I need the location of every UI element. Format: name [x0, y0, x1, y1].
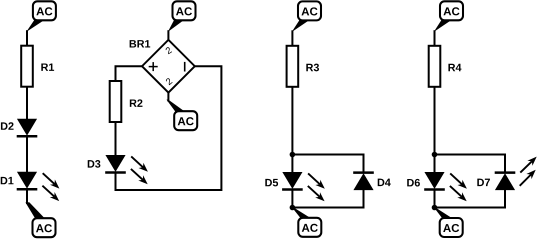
label D1 [1, 177, 8, 184]
resistor R1 [21, 46, 33, 87]
AC source terminal (circuit 3 top) [293, 1, 321, 31]
LED D3 [105, 156, 126, 173]
wire: D5 cathode to bottom junction [291, 190, 293, 208]
diode D2 [17, 119, 38, 136]
wire: top rail to D7 branch (circuit 4) [435, 155, 506, 173]
wire: AC top to BR1 pin 2 (circuit 2) [167, 30, 169, 41]
wire: D3 cathode to BR1 - input (bottom and right rail) [116, 66, 222, 190]
label D7 [477, 179, 484, 186]
BR1 pin marking + (DC positive, left) [149, 62, 158, 71]
AC source terminal (circuit 4 bottom) [433, 206, 462, 237]
wire: R2 to D3 anode [115, 122, 117, 157]
LED D6 emission arrows [450, 173, 467, 201]
wire: top junction to D5 anode [291, 155, 293, 174]
label R2 [130, 99, 137, 106]
BR1 pin marking - (DC negative, right) [184, 62, 186, 72]
LED D5 emission arrows [308, 173, 325, 201]
label BR1 [130, 40, 137, 47]
junction node (circuit 4 top) [432, 152, 438, 158]
resistor R2 [110, 81, 122, 122]
label D3 [88, 160, 95, 167]
label R3 [306, 64, 313, 71]
wire: AC top to R1 (circuit 1) [26, 30, 28, 46]
junction node (circuit 4 bottom) [432, 205, 438, 211]
label D4 [378, 179, 385, 186]
AC source terminal (circuit 1 top) [27, 1, 56, 31]
bridge rectifier BR1 body [142, 40, 195, 93]
wire: D4 anode to bottom rail (circuit 3) [292, 189, 363, 208]
BR1 pin marking ~ AC (bottom) [165, 77, 172, 85]
label R1 [41, 63, 48, 70]
junction node (circuit 3 top) [290, 152, 296, 158]
wire: R1 to D2 anode [26, 87, 28, 121]
LED D1 emission arrows [42, 173, 59, 201]
wire: D6 cathode to bottom junction [434, 190, 436, 208]
wire: BR1 + output to R2 [116, 66, 143, 82]
label D2 [1, 122, 8, 129]
BR1 pin marking ~ AC (top) [165, 46, 172, 54]
wire: top junction to D6 anode [434, 155, 436, 174]
wire: R3 to top junction [291, 87, 293, 155]
label D6 [407, 179, 414, 186]
LED D7 [495, 173, 516, 190]
AC source terminal (circuit 3 bottom) [291, 206, 321, 237]
wire: AC top to R3 (circuit 3) [291, 30, 293, 46]
resistor R3 [287, 46, 299, 87]
LED D7 emission arrows [520, 157, 537, 186]
diode D4 [353, 173, 374, 190]
wire: BR1 pin 2 bottom stub [167, 92, 169, 102]
LED D1 [17, 172, 38, 189]
AC source terminal (circuit 4 top) [435, 1, 463, 31]
label R4 [448, 64, 455, 71]
AC source terminal (circuit 2 top) [169, 1, 196, 31]
wire: D2 cathode to D1 anode [26, 136, 28, 173]
junction node (circuit 3 bottom) [290, 205, 296, 211]
LED D5 [282, 173, 303, 190]
wire: AC top to R4 (circuit 4) [434, 30, 436, 46]
wire: R4 to top junction (circuit 4) [434, 87, 436, 155]
wire: D1 cathode to AC bottom (circuit 1) [26, 189, 28, 204]
wire: D7 anode to bottom rail (circuit 4) [435, 189, 506, 208]
resistor R4 [429, 46, 441, 87]
label D5 [265, 179, 272, 186]
AC source terminal (circuit 1 bottom) [26, 203, 56, 238]
LED D6 [424, 173, 445, 190]
wire: top rail to D4 branch (circuit 3) [292, 155, 363, 173]
AC source terminal (circuit 2 bottom) [167, 100, 197, 130]
LED D3 emission arrows [131, 156, 148, 184]
